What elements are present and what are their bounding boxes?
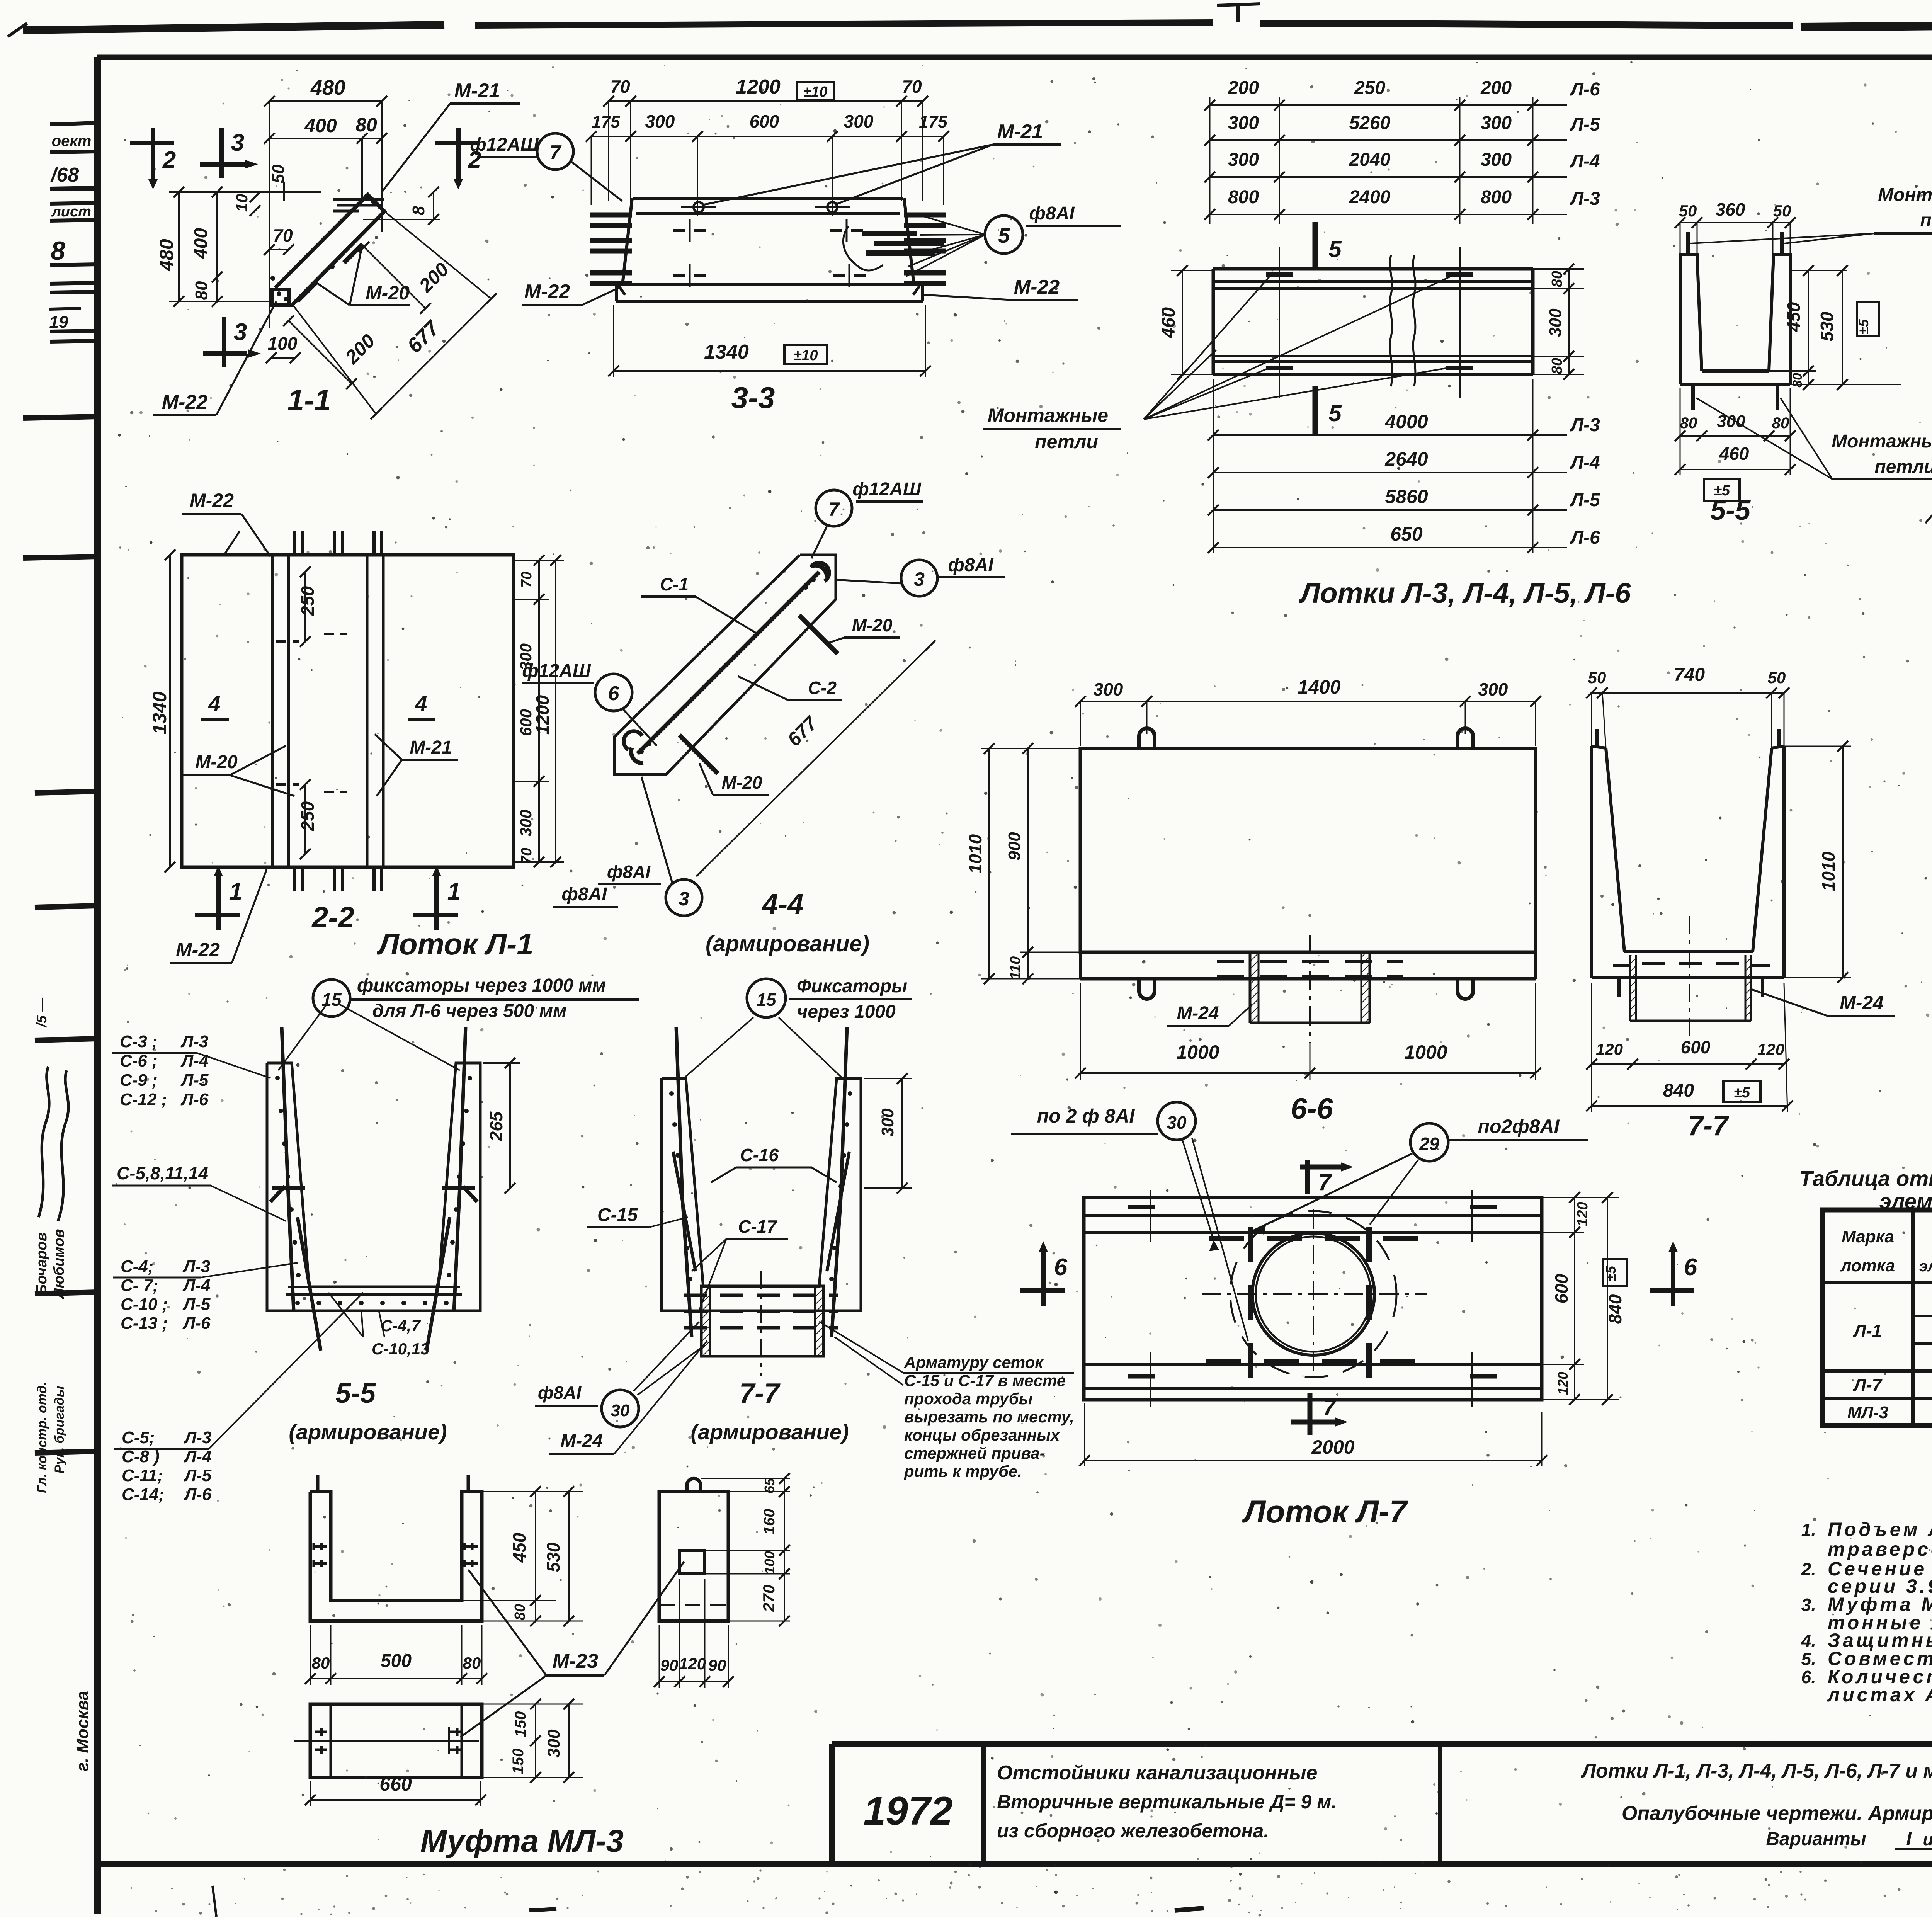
svg-text:Лотки Л-1, Л-3, Л-4, Л-5, Л-6,: Лотки Л-1, Л-3, Л-4, Л-5, Л-6, Л-7 и муф… [1580,1760,1932,1782]
svg-text:лотка: лотка [1840,1256,1895,1275]
svg-text:Муфта МЛ-3: Муфта МЛ-3 [420,1823,624,1859]
svg-text:8: 8 [51,236,65,265]
svg-text:Л-7: Л-7 [1853,1375,1883,1395]
svg-text:Л-6: Л-6 [1570,527,1600,548]
title block [832,1741,1932,1747]
svg-text:М-22: М-22 [162,391,208,413]
svg-text:7-7: 7-7 [1688,1111,1729,1141]
svg-text:150: 150 [510,1749,527,1774]
drawing frame [97,55,1932,60]
svg-text:С-14;: С-14; [122,1485,164,1504]
svg-text:концы обрезанных: концы обрезанных [904,1426,1060,1444]
svg-text:120: 120 [1757,1040,1784,1058]
svg-text:±5: ±5 [1603,1266,1619,1281]
svg-text:±5: ±5 [1855,319,1871,335]
svg-text:Отстойники канализационные: Отстойники канализационные [997,1762,1317,1784]
svg-text:450: 450 [509,1533,529,1563]
svg-text:480: 480 [156,239,177,272]
svg-text:С-3 ;: С-3 ; [120,1032,158,1051]
svg-text:50: 50 [1679,202,1697,220]
svg-text:Варианты: Варианты [1766,1829,1866,1849]
svg-text:1: 1 [447,878,461,905]
svg-text:г. Москва: г. Москва [73,1691,92,1771]
svg-text:600: 600 [1551,1274,1571,1303]
svg-text:(армирование): (армирование) [706,931,869,956]
scan speckles [951,339,953,342]
svg-text:7-7: 7-7 [739,1378,781,1409]
svg-text:4: 4 [415,691,427,716]
svg-text:530: 530 [1817,311,1837,341]
svg-text:120: 120 [1596,1040,1623,1058]
svg-text:траверсой, не допуская пере: траверсой, не допуская передачи распора … [1828,1538,1932,1560]
svg-text:6.: 6. [1801,1667,1816,1687]
section 6-6 [1080,748,1536,952]
svg-text:3.: 3. [1801,1595,1816,1615]
svg-text:С-4;: С-4; [121,1257,154,1276]
svg-text:100: 100 [268,333,298,354]
svg-text:50: 50 [1773,202,1791,220]
svg-text:С-5;: С-5; [122,1428,155,1447]
svg-text:Л-6: Л-6 [182,1314,211,1333]
svg-text:2: 2 [162,147,176,173]
svg-text:1.: 1. [1801,1520,1816,1540]
svg-text:С-17: С-17 [738,1216,777,1237]
svg-text:Л-3: Л-3 [184,1428,211,1447]
svg-text:Л-4: Л-4 [180,1051,208,1070]
svg-text:5: 5 [998,224,1010,247]
svg-text:С-11;: С-11; [122,1466,163,1485]
svg-text:90: 90 [660,1656,679,1674]
svg-text:5: 5 [1328,236,1342,262]
svg-text:2040: 2040 [1349,150,1391,170]
svg-text:650: 650 [1390,523,1423,545]
svg-text:80: 80 [355,114,377,136]
svg-text:15: 15 [756,990,777,1010]
svg-text:и: и [1923,1830,1932,1849]
svg-text:1010: 1010 [1818,851,1838,891]
svg-text:Монтажные: Монтажные [988,405,1108,426]
svg-text:80: 80 [1680,415,1697,432]
svg-text:Л-5: Л-5 [1570,114,1600,135]
svg-text:Л-5: Л-5 [184,1466,212,1485]
svg-text:1000: 1000 [1176,1041,1219,1063]
svg-text:для Л-6 через 500 мм: для Л-6 через 500 мм [372,1001,566,1021]
svg-text:С-15: С-15 [597,1205,638,1225]
svg-text:80: 80 [1772,415,1789,432]
svg-text:Л-1: Л-1 [1853,1321,1882,1341]
svg-text:(армирование): (армирование) [690,1420,849,1444]
svg-text:80: 80 [512,1604,528,1620]
svg-text:300: 300 [844,111,874,131]
svg-text:Л-4: Л-4 [182,1276,210,1295]
svg-text:М-22: М-22 [1014,276,1060,298]
svg-text:70: 70 [902,77,922,97]
svg-text:Марка: Марка [1842,1227,1894,1246]
svg-text:4-4: 4-4 [762,888,804,920]
svg-text:1340: 1340 [704,341,749,363]
svg-text:2640: 2640 [1384,448,1428,470]
svg-text:300: 300 [1228,150,1259,170]
svg-text:800: 800 [1228,187,1259,208]
svg-text:120: 120 [1555,1372,1571,1395]
svg-text:8: 8 [409,206,428,215]
svg-text:6: 6 [1054,1254,1068,1281]
svg-text:4000: 4000 [1384,411,1428,432]
svg-text:2000: 2000 [1311,1436,1354,1458]
svg-text:1000: 1000 [1404,1041,1447,1063]
svg-text:прохода трубы: прохода трубы [904,1390,1033,1408]
svg-text:200: 200 [1228,78,1259,98]
svg-text:(армирование): (армирование) [289,1420,447,1444]
svg-text:19: 19 [49,313,68,332]
svg-text:2.: 2. [1801,1559,1816,1579]
svg-text:С-9 ;: С-9 ; [120,1071,158,1090]
svg-text:Арматуру сеток: Арматуру сеток [904,1353,1044,1371]
svg-text:600: 600 [517,709,535,736]
svg-text:1-1: 1-1 [287,383,331,417]
svg-text:ф8АI: ф8АI [561,884,607,905]
svg-text:ф12АШ: ф12АШ [470,134,539,155]
svg-text:3: 3 [231,129,244,156]
svg-text:ф8АI: ф8АI [1029,203,1075,224]
top scan bar [23,25,444,30]
svg-text:Монтажные: Монтажные [1878,185,1932,205]
svg-text:530: 530 [543,1542,563,1572]
svg-text:1200: 1200 [736,76,781,98]
svg-text:Лотки Л-3, Л-4, Л-5, Л-6: Лотки Л-3, Л-4, Л-5, Л-6 [1298,577,1631,609]
svg-text:250: 250 [298,801,318,831]
svg-text:1200: 1200 [532,695,553,735]
svg-text:1340: 1340 [149,691,170,734]
svg-text:Лоток Л-1: Лоток Л-1 [376,927,533,961]
svg-text:740: 740 [1674,665,1705,685]
svg-text:М-20: М-20 [366,282,410,304]
svg-text:110: 110 [1007,956,1024,980]
svg-text:МЛ-3: МЛ-3 [1847,1403,1888,1422]
svg-text:300: 300 [517,810,535,837]
svg-text:80: 80 [1549,271,1565,287]
svg-text:5.: 5. [1801,1649,1816,1669]
svg-text:600: 600 [1681,1037,1711,1057]
svg-text:5-5: 5-5 [1710,495,1751,526]
svg-text:±5: ±5 [1734,1085,1750,1101]
svg-text:80: 80 [192,281,211,300]
svg-text:250: 250 [1354,78,1385,98]
svg-text:3: 3 [234,319,247,345]
svg-text:7: 7 [1318,1169,1332,1195]
svg-text:вырезать по месту,: вырезать по месту, [904,1408,1074,1426]
svg-text:200: 200 [1480,78,1512,98]
svg-text:50: 50 [269,164,288,183]
svg-text:300: 300 [1478,679,1508,699]
svg-text:М-21: М-21 [410,737,452,758]
svg-text:М-20: М-20 [852,615,893,635]
svg-text:1: 1 [229,878,242,905]
svg-text:Монтажные: Монтажные [1832,431,1932,452]
svg-text:петли: петли [1920,210,1932,231]
svg-text:300: 300 [1481,113,1512,133]
svg-text:ф12АШ: ф12АШ [522,661,591,681]
svg-text:Лоток Л-7: Лоток Л-7 [1242,1494,1408,1529]
svg-text:ф8АI: ф8АI [538,1383,582,1403]
svg-text:80: 80 [1790,373,1805,388]
svg-text:лист: лист [51,204,91,220]
coupling ML-3 [310,1492,482,1621]
svg-text:6-6: 6-6 [1291,1092,1333,1125]
svg-text:120: 120 [1575,1202,1591,1226]
svg-text:Опалубочные чертежи. Арм: Опалубочные чертежи. Армирование. [1622,1802,1932,1825]
fixators labels [313,980,350,1017]
svg-text:М-20: М-20 [195,752,238,772]
svg-text:300: 300 [1717,412,1745,431]
svg-text:М-22: М-22 [190,490,234,511]
svg-text:С-2: С-2 [808,678,837,698]
svg-text:через 1000: через 1000 [797,1002,896,1022]
svg-text:70: 70 [610,77,630,97]
svg-text:80: 80 [463,1654,481,1672]
svg-text:840: 840 [1663,1080,1694,1101]
svg-text:460: 460 [1158,307,1179,338]
svg-text:по2ф8АI: по2ф8АI [1478,1116,1560,1137]
svg-text:Л-6: Л-6 [180,1090,209,1109]
svg-text:400: 400 [191,228,211,259]
svg-text:80: 80 [1549,358,1565,374]
svg-text:70: 70 [519,572,535,588]
svg-text:Любимов: Любимов [51,1229,67,1299]
svg-text:900: 900 [1005,832,1024,861]
sidebar margin ticks [23,417,97,418]
svg-text:ф8АI: ф8АI [607,862,651,882]
svg-text:800: 800 [1481,187,1512,208]
svg-text:элемента: элемента [1919,1258,1932,1275]
svg-text:460: 460 [1719,444,1749,464]
svg-text:С- 7;: С- 7; [121,1276,158,1295]
svg-text:120: 120 [679,1655,706,1673]
svg-text:100: 100 [762,1551,777,1574]
sidebar cells [50,123,97,124]
svg-text:ф12АШ: ф12АШ [852,479,922,500]
svg-text:Л-6: Л-6 [1570,79,1600,100]
svg-text:300: 300 [1094,679,1123,699]
svg-text:С-1: С-1 [660,574,689,594]
svg-text:Л-4: Л-4 [1570,151,1600,172]
svg-text:М-22: М-22 [176,939,220,961]
svg-text:5860: 5860 [1385,486,1428,507]
svg-text:30: 30 [1167,1112,1187,1133]
svg-text:65: 65 [762,1478,777,1493]
svg-text:840: 840 [1605,1294,1625,1324]
svg-text:5-5: 5-5 [335,1378,376,1409]
svg-text:рить к трубе.: рить к трубе. [904,1462,1022,1480]
svg-text:Л-3: Л-3 [1570,415,1600,435]
svg-text:150: 150 [512,1711,529,1737]
svg-text:/5 —: /5 — [34,997,49,1028]
svg-text:петли: петли [1035,431,1098,452]
svg-text:6: 6 [608,682,620,705]
svg-text:±10: ±10 [793,347,818,364]
svg-text:80: 80 [312,1654,330,1672]
section 1-1 [151,128,155,185]
svg-text:стержней прива-: стержней прива- [904,1444,1045,1462]
svg-text:М-23: М-23 [553,1650,599,1672]
svg-text:70: 70 [519,848,535,864]
svg-text:Подъем лотка за верхние п: Подъем лотка за верхние петли осуществля… [1828,1519,1932,1540]
svg-text:оект: оект [52,133,92,150]
svg-text:10: 10 [233,194,251,212]
svg-text:Рук. бригады: Рук. бригады [52,1386,67,1474]
svg-text:50: 50 [1768,668,1786,687]
svg-text:2400: 2400 [1349,187,1391,208]
svg-text:4: 4 [208,691,220,716]
svg-text:660: 660 [379,1773,412,1795]
svg-text:30: 30 [611,1401,630,1420]
svg-text:6: 6 [1684,1254,1697,1281]
svg-text:300: 300 [645,111,675,131]
section 2-2 plan [182,555,514,867]
svg-text:500: 500 [381,1651,412,1671]
section 7-7 reinforcement [662,1078,861,1311]
svg-text:±10: ±10 [803,84,827,100]
svg-text:С-10 ;: С-10 ; [121,1295,168,1314]
svg-text:29: 29 [1419,1134,1439,1154]
svg-text:7: 7 [550,141,562,164]
svg-text:50: 50 [1588,668,1606,687]
svg-text:М-21: М-21 [997,121,1043,143]
svg-text:Л-6: Л-6 [184,1485,212,1504]
svg-text:Вторичные вертикальные Д= 9: Вторичные вертикальные Д= 9 м. [997,1791,1337,1813]
svg-text:2-2: 2-2 [311,901,354,934]
svg-text:360: 360 [1716,199,1745,219]
svg-text:1010: 1010 [965,834,985,874]
svg-text:М-22: М-22 [524,281,570,303]
svg-text:265: 265 [486,1111,506,1141]
svg-text:270: 270 [760,1585,778,1612]
svg-text:5: 5 [1328,400,1342,426]
svg-text:Таблица отправочных марок закл: Таблица отправочных марок закладных [1799,1166,1932,1191]
svg-text:160: 160 [761,1509,778,1535]
svg-text:фиксаторы через 1000 мм: фиксаторы через 1000 мм [357,975,606,996]
svg-text:С-5,8,11,14: С-5,8,11,14 [117,1163,208,1183]
svg-text:90: 90 [708,1656,726,1674]
svg-text:ф8АI: ф8АI [948,555,994,575]
svg-text:/68: /68 [50,164,79,186]
svg-text:из сборного железобетона.: из сборного железобетона. [997,1820,1269,1842]
svg-text:450: 450 [1784,302,1804,332]
svg-text:5260: 5260 [1349,113,1391,133]
svg-text:3: 3 [679,888,689,910]
svg-text:С-10,13: С-10,13 [372,1340,429,1358]
svg-text:3-3: 3-3 [731,381,775,415]
svg-text:300: 300 [878,1108,897,1137]
svg-text:Л-3: Л-3 [180,1032,208,1051]
svg-text:С-13 ;: С-13 ; [121,1314,168,1333]
svg-text:Л-5: Л-5 [1570,490,1600,510]
svg-text:600: 600 [750,111,779,131]
section 4-4 reinforcement [816,490,852,526]
svg-text:Л-5: Л-5 [180,1071,209,1090]
svg-text:М-24: М-24 [560,1431,602,1451]
svg-text:С-15 и С-17 в месте: С-15 и С-17 в месте [904,1371,1066,1390]
svg-text:480: 480 [310,76,345,99]
svg-text:1400: 1400 [1298,676,1340,698]
svg-text:300: 300 [1546,308,1565,337]
svg-text:петли: петли [1874,457,1932,477]
svg-text:Л-5: Л-5 [182,1295,211,1314]
svg-text:1972: 1972 [863,1789,952,1834]
svg-text:70: 70 [273,225,293,245]
svg-text:М-24: М-24 [1840,992,1884,1014]
svg-text:по 2 ф 8АI: по 2 ф 8АI [1037,1105,1135,1127]
svg-text:Л-3: Л-3 [1570,189,1600,209]
svg-text:175: 175 [592,112,620,131]
svg-text:Л-3: Л-3 [182,1257,210,1276]
svg-text:7: 7 [1323,1395,1337,1420]
svg-text:С-16: С-16 [740,1145,779,1165]
svg-text:Бочаров: Бочаров [34,1233,50,1295]
svg-text:400: 400 [304,115,337,136]
svg-text:С-12 ;: С-12 ; [120,1090,167,1109]
svg-text:М-20: М-20 [722,772,762,793]
svg-text:300: 300 [1481,150,1512,170]
svg-text:300: 300 [544,1729,563,1758]
svg-text:листах АС-3,4,5.: листах АС-3,4,5. [1827,1684,1932,1706]
svg-text:Л-4: Л-4 [1570,452,1600,473]
svg-text:С-4,7: С-4,7 [381,1317,421,1335]
svg-text:4.: 4. [1801,1631,1816,1651]
svg-text:I: I [1906,1829,1912,1849]
svg-text:М-21: М-21 [454,80,500,102]
svg-text:С-6 ;: С-6 ; [120,1051,158,1070]
svg-text:Фиксаторы: Фиксаторы [797,976,907,997]
svg-text:Гл. констр. отд.: Гл. констр. отд. [35,1382,49,1493]
svg-text:7: 7 [828,498,840,520]
svg-text:250: 250 [298,586,318,616]
svg-text:300: 300 [1228,113,1259,133]
svg-text:М-24: М-24 [1177,1003,1219,1024]
svg-text:3: 3 [914,568,925,590]
